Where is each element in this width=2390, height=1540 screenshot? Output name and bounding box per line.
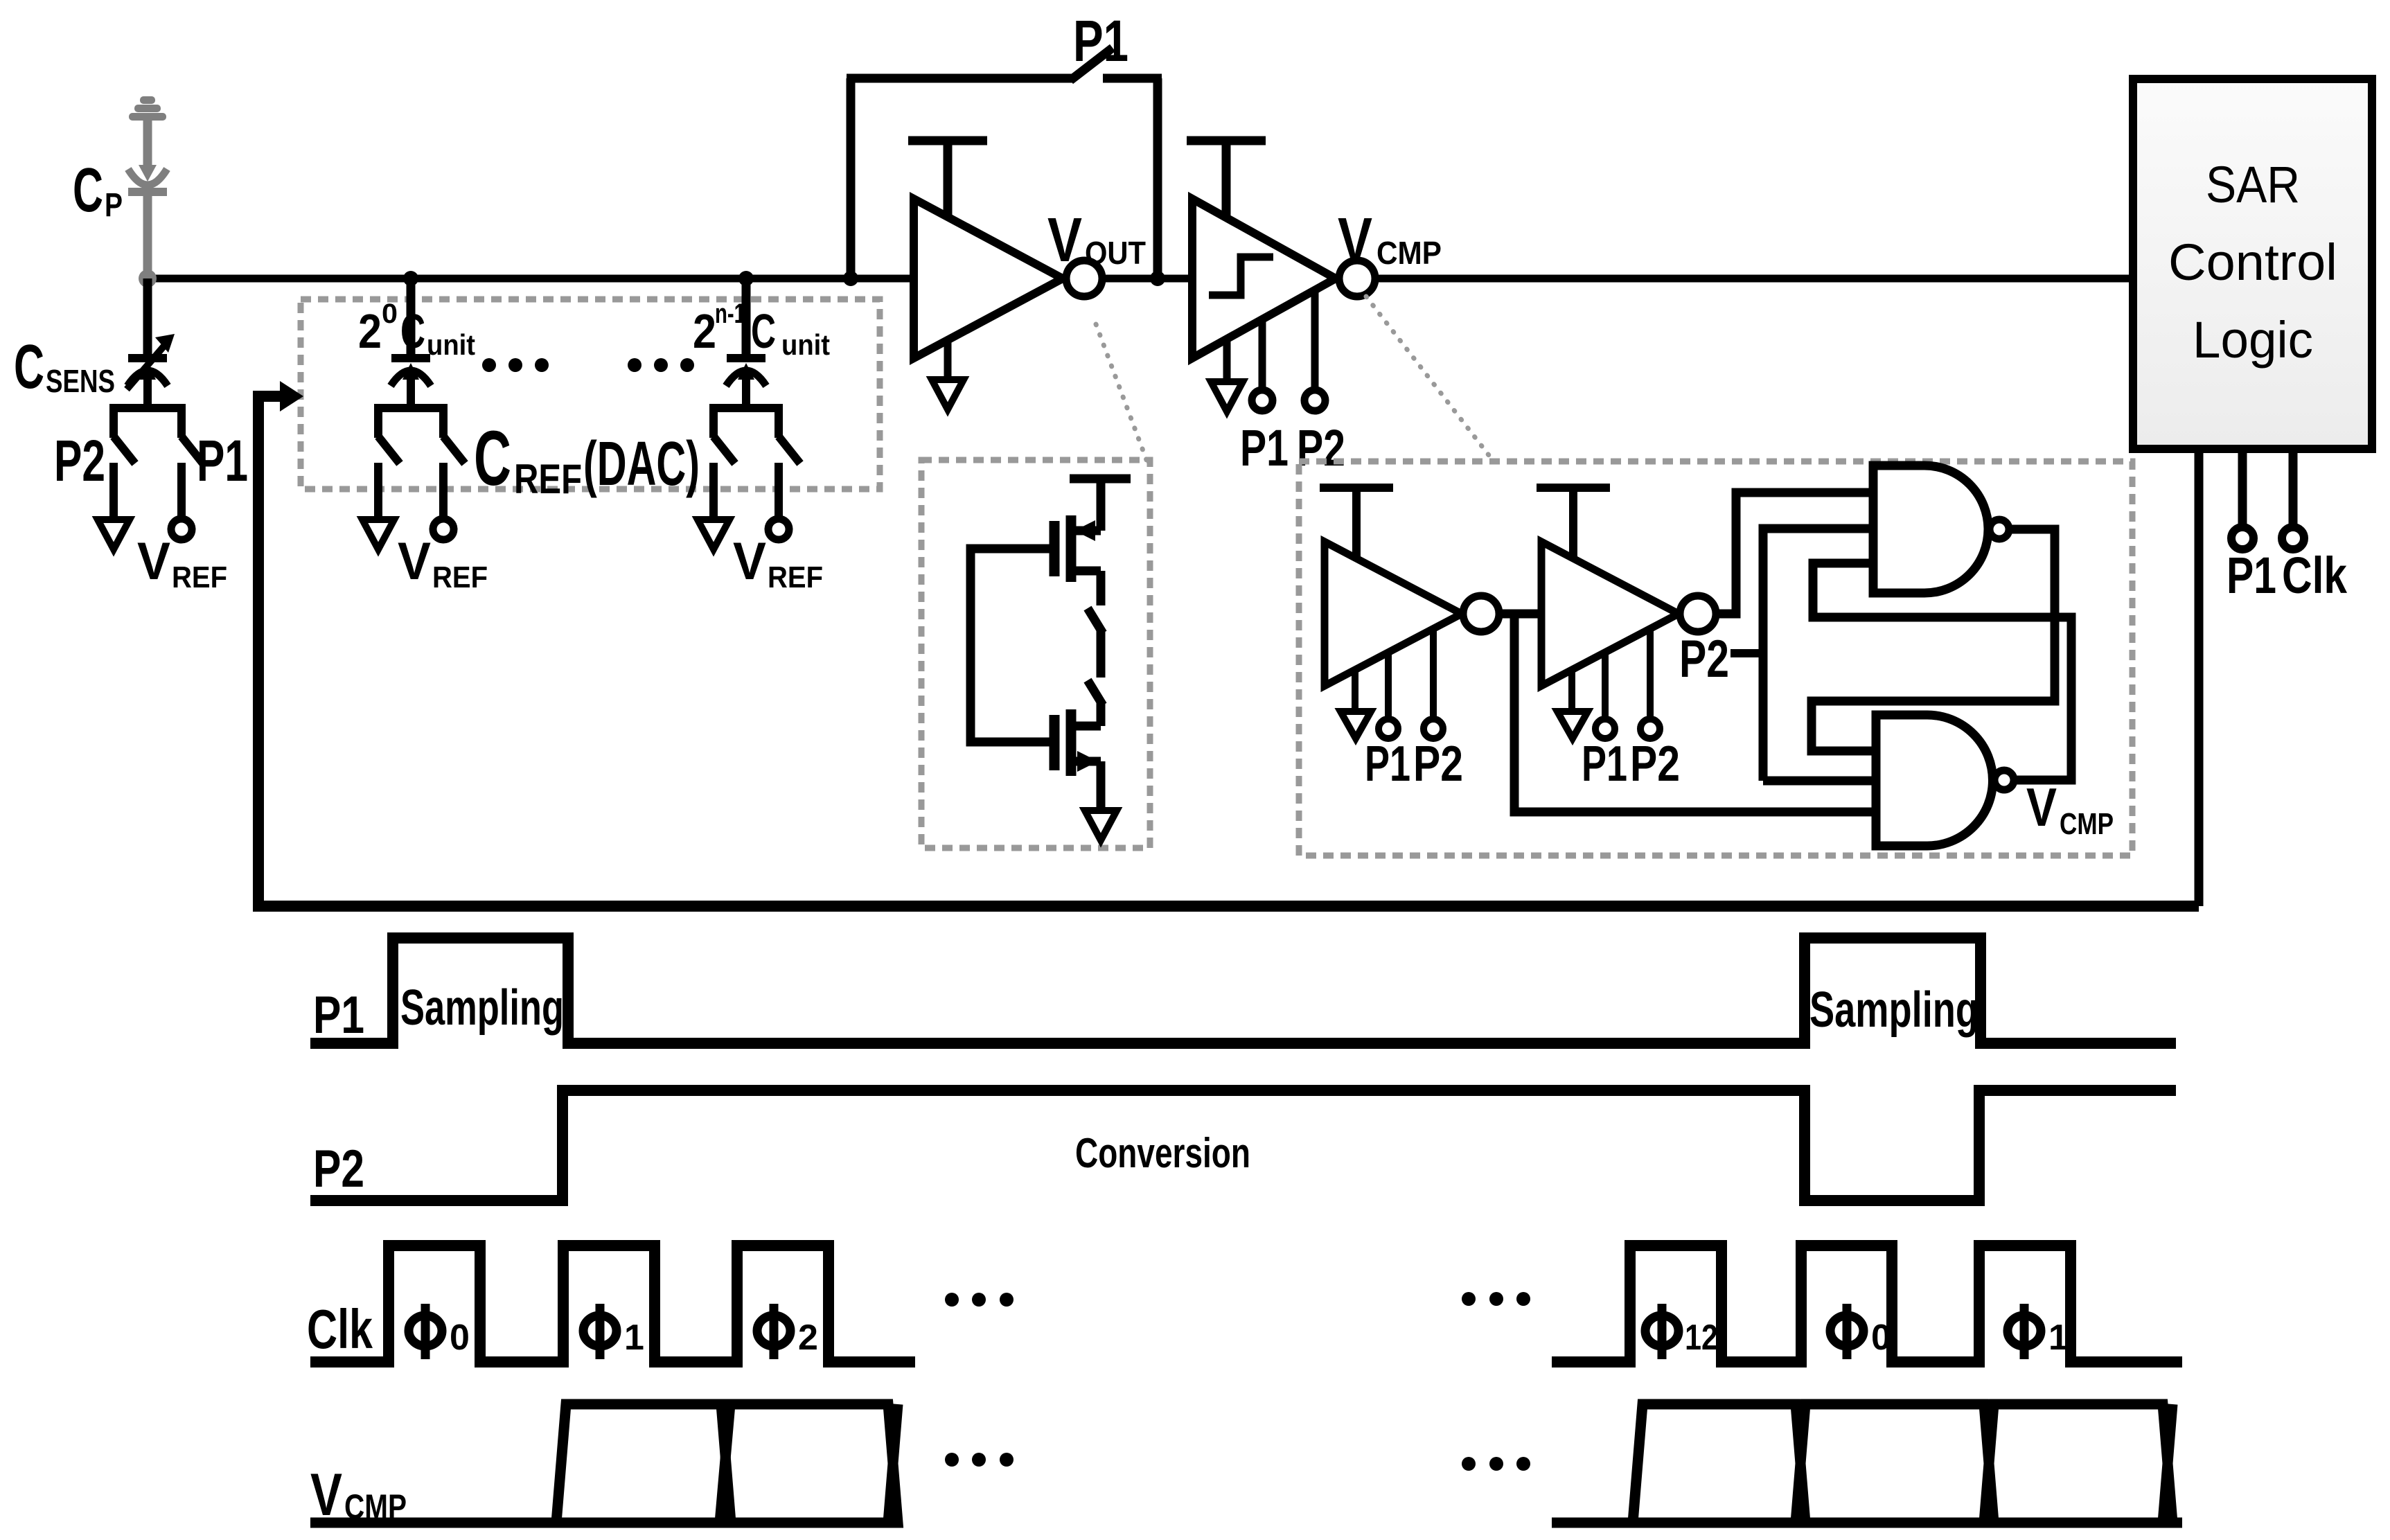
svg-text:Clk: Clk	[307, 1298, 373, 1360]
svg-text:P2: P2	[54, 428, 105, 493]
ground (below U1)	[944, 339, 952, 380]
pin P1 of SAR	[2238, 449, 2247, 527]
svg-text:CMP: CMP	[2060, 807, 2114, 841]
wire: main bus node	[148, 275, 2133, 283]
svg-text:Clk: Clk	[2282, 547, 2348, 604]
wire: feedback bottom bus	[258, 396, 2199, 906]
wire: G2 output feedback to G1 input	[1813, 563, 2071, 780]
svg-text:1: 1	[2048, 1318, 2069, 1358]
CREF DAC dashed box	[301, 299, 880, 489]
svg-text:P2: P2	[1413, 736, 1463, 792]
node: gray junction dot on bus	[139, 269, 157, 287]
svg-text:C: C	[474, 415, 511, 502]
ground (inverter detail)	[1085, 811, 1117, 840]
wire: U4 output to NAND G1 input	[1716, 493, 1873, 614]
dots between DAC capacitors	[482, 358, 694, 372]
svg-text:REF: REF	[172, 560, 227, 594]
svg-text:(DAC): (DAC)	[583, 430, 700, 499]
detail callout line U2 to latch detail box	[1366, 297, 1494, 461]
wire: gray lead from ground to CP	[143, 116, 152, 170]
pin P2 of U3	[1430, 629, 1437, 720]
wire: feedback riser right to VOUT node	[1153, 78, 1162, 278]
switch (upper, inverter detail)	[1088, 608, 1103, 633]
dots (VCMP left)	[945, 1453, 959, 1467]
svg-text:Logic: Logic	[2193, 311, 2313, 369]
svg-text:P2: P2	[1630, 736, 1680, 792]
power rail of comparator U2	[1187, 136, 1266, 145]
svg-text:Sampling: Sampling	[400, 980, 564, 1036]
svg-text:n-1: n-1	[715, 299, 745, 329]
svg-text:0: 0	[450, 1318, 470, 1358]
switch P2 (CSENS to ground)	[114, 408, 182, 438]
NAND gate G1	[1873, 466, 1988, 593]
label phi0	[409, 1304, 442, 1359]
label phi1	[583, 1304, 617, 1359]
switch pair under 2^0 Cunit	[378, 408, 443, 438]
node A: bus junction for 2^0 Cunit	[403, 271, 418, 286]
wire: G1 output feedback to G2 input	[1812, 529, 2055, 751]
svg-text:0: 0	[382, 299, 398, 329]
wire: bus to CSENS	[143, 278, 152, 356]
NAND gate G2	[1876, 715, 1992, 846]
svg-text:C: C	[751, 304, 776, 358]
wire: P2 net into latch	[1730, 649, 1763, 657]
waveform VCMP pulse 2	[720, 1404, 898, 1523]
transistor Q1 (PMOS)	[1050, 521, 1060, 576]
node: VREF terminal circle	[768, 519, 789, 540]
waveform VCMP phantom rise (right)	[2163, 1404, 2172, 1523]
waveform Clk (left)	[310, 1246, 915, 1362]
svg-text:Conversion: Conversion	[1075, 1130, 1250, 1176]
svg-text:P1: P1	[1365, 736, 1410, 792]
svg-text:Sampling: Sampling	[1809, 982, 1979, 1038]
capacitor CSENS (variable sense capacitor)	[127, 358, 168, 406]
svg-text:REF: REF	[432, 560, 488, 594]
svg-text:P1: P1	[197, 428, 248, 493]
waveform VCMP (left baseline)	[310, 1518, 563, 1528]
inverter U4	[1541, 542, 1679, 686]
svg-text:P1: P1	[1073, 8, 1128, 73]
node B: bus junction for 2^(n-1) Cunit	[738, 271, 754, 286]
switch pair under 2^(n-1) Cunit	[714, 408, 779, 438]
svg-text:12: 12	[1685, 1318, 1718, 1358]
label phi12	[1645, 1304, 1679, 1359]
label phi1 (right)	[2008, 1304, 2041, 1359]
svg-text:V: V	[1338, 206, 1372, 275]
detail callout line U1 to inverter detail box	[1096, 324, 1147, 460]
SAR Control Logic box	[2133, 79, 2372, 449]
svg-text:P1: P1	[1240, 419, 1289, 477]
svg-text:V: V	[398, 532, 431, 591]
svg-text:SENS: SENS	[46, 363, 115, 399]
svg-text:SAR: SAR	[2206, 156, 2300, 213]
op-amp U1 (inverter amplifier)	[914, 199, 1063, 358]
inverter transistor detail dashed box	[921, 460, 1150, 848]
svg-text:V: V	[1047, 206, 1082, 275]
switch P1 (CSENS to VREF)	[182, 436, 203, 463]
svg-text:0: 0	[1871, 1318, 1891, 1358]
svg-text:C: C	[400, 304, 425, 358]
waveform P1	[310, 938, 2176, 1043]
power rail (inverter detail)	[1070, 475, 1131, 484]
switch P1 (auto-zero feedback)	[1070, 48, 1113, 80]
wire: U3 output to U4 input	[1499, 610, 1543, 619]
waveform VCMP right pulse 1	[1633, 1404, 1805, 1523]
node: VREF terminal circle	[171, 519, 192, 540]
pin P2 of U4	[1647, 629, 1654, 720]
node: bus junction for P1 feedback	[843, 271, 858, 286]
pin P1 of U2	[1259, 320, 1266, 390]
capacitor CP (gray parasitic cap)	[128, 169, 167, 192]
svg-text:P: P	[105, 187, 123, 224]
ground (below U3)	[1352, 670, 1358, 711]
svg-text:P1: P1	[1582, 736, 1627, 792]
svg-text:REF: REF	[768, 560, 823, 594]
svg-text:REF: REF	[514, 456, 582, 502]
svg-text:2: 2	[693, 304, 716, 358]
switch (lower, inverter detail)	[1088, 680, 1103, 705]
svg-text:unit: unit	[781, 328, 830, 361]
waveform VCMP phantom rise	[888, 1404, 898, 1523]
wire: bus to capacitor 2^0 Cunit	[407, 278, 416, 356]
svg-text:V: V	[733, 532, 766, 591]
svg-text:C: C	[14, 333, 44, 402]
node: VREF terminal circle	[433, 519, 454, 540]
svg-text:unit: unit	[427, 328, 475, 361]
dots (VCMP right)	[1462, 1457, 1476, 1471]
svg-text:Control: Control	[2168, 233, 2337, 291]
ground (below U4)	[1568, 670, 1575, 711]
dots (Clk left)	[945, 1293, 959, 1307]
svg-text:P1: P1	[313, 986, 364, 1045]
latch detail dashed box	[1299, 461, 2132, 856]
svg-text:P2: P2	[1679, 630, 1729, 689]
svg-text:OUT: OUT	[1085, 235, 1146, 271]
svg-text:P2: P2	[313, 1140, 364, 1198]
wire: bus to capacitor 2^(n-1) Cunit	[742, 278, 751, 356]
inverter U3	[1325, 542, 1462, 686]
svg-text:C: C	[73, 156, 103, 225]
ground (under 2^(n-1) Cunit switch)	[698, 520, 729, 549]
svg-text:P1: P1	[2227, 547, 2276, 604]
wire: U3 output branch to NAND G2	[1514, 614, 1876, 812]
capacitor 2^(n-1) Cunit	[726, 358, 766, 406]
svg-text:V: V	[2026, 777, 2057, 838]
op-amp U2 (clocked comparator)	[1192, 199, 1336, 358]
ground (below U2)	[1223, 339, 1231, 382]
svg-text:P2: P2	[1297, 419, 1345, 477]
waveform VCMP pulse 1	[556, 1404, 731, 1523]
power rail of inverter U3	[1320, 484, 1393, 492]
waveform VCMP right pulse 2	[1796, 1404, 1994, 1523]
wire: SAR feedback output	[2195, 449, 2204, 906]
wire: P1 feedback top	[847, 74, 1072, 83]
svg-text:2: 2	[358, 304, 382, 358]
transistor Q2 (NMOS)	[1050, 715, 1060, 770]
step symbol inside U2	[1209, 257, 1273, 295]
capacitor 2^0 Cunit	[391, 358, 431, 406]
dots (Clk right)	[1462, 1292, 1476, 1306]
waveform VCMP right pulse 3	[1984, 1404, 2172, 1523]
waveform VCMP (right baseline)	[1552, 1518, 2182, 1528]
label phi2	[757, 1304, 790, 1359]
pin P1 of U3	[1385, 653, 1392, 720]
wire: gray lead from CP to bus	[143, 194, 152, 278]
pin P2 of U2	[1311, 292, 1319, 390]
power rail of inverter U4	[1537, 484, 1610, 492]
pin Clk of SAR	[2289, 449, 2298, 527]
power rail of inverter U1	[908, 136, 987, 145]
ground (below P2 switch)	[98, 520, 130, 549]
node: VOUT junction dot	[1150, 271, 1165, 286]
svg-text:2: 2	[798, 1318, 818, 1358]
ground (under 2^0 Cunit switch)	[362, 520, 394, 549]
label phi0 (right)	[1830, 1304, 1864, 1359]
wire: feedback riser left	[847, 78, 856, 278]
pin P1 of U4	[1602, 653, 1609, 720]
svg-text:1: 1	[624, 1318, 644, 1358]
ground (gray chassis ground above CP)	[129, 96, 166, 121]
waveform Clk (right)	[1552, 1246, 2182, 1362]
waveform P2	[310, 1090, 2176, 1201]
svg-text:CMP: CMP	[1377, 235, 1442, 271]
svg-text:V: V	[137, 532, 170, 591]
wire: gate input loop	[971, 549, 1054, 742]
